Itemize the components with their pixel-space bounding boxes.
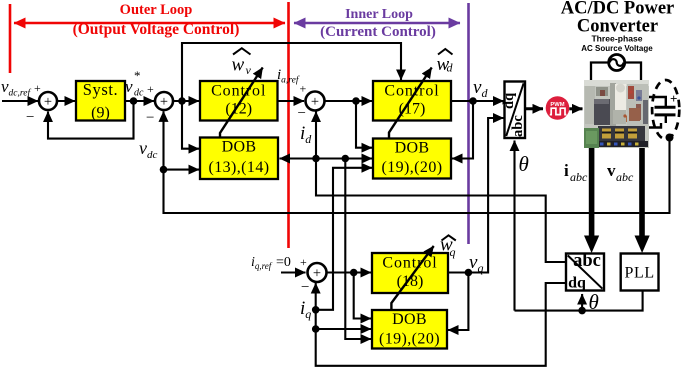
thick measurement line i_abc [589,148,595,237]
wire S1 to Syst [57,100,75,102]
svg-text:abc: abc [616,170,634,184]
wire i_d to lower DOB bottom input [345,159,371,340]
DC bus capacitor dashed ellipse [652,80,679,139]
block DOB (19),(20) upper [373,139,451,179]
svg-text:(19),(20): (19),(20) [382,159,443,176]
wire theta to modulation box [513,141,515,311]
summing junction S1 [39,92,57,110]
outer loop red bracket line left [9,4,12,73]
wire error to Control(17) top [182,43,401,101]
svg-text:Three-phase: Three-phase [591,34,642,44]
svg-text:+: + [34,81,41,95]
capacitor plates [655,106,676,109]
svg-text:(Output Voltage Control): (Output Voltage Control) [73,21,240,38]
wire v_dc into DOB(13)(14) [164,169,200,171]
svg-text:PLL: PLL [624,265,654,282]
svg-text:+: + [311,94,319,110]
wire S2 to Control(12) [173,100,199,102]
block PLL [621,254,659,291]
svg-text:+: + [44,94,52,110]
wire i_d into DOB(13)(14) right [280,157,317,159]
label w_d hat [438,49,453,55]
svg-text:dq: dq [501,93,517,109]
svg-text:θ: θ [519,152,529,176]
adaptation arrow w_d [389,68,432,139]
svg-text:w: w [232,55,245,76]
svg-text:Control: Control [211,83,266,100]
wire error down to DOB(13)(14) [182,101,199,149]
node v_d [469,97,477,105]
wire input v_dc,ref [2,100,38,102]
svg-text:v: v [607,161,616,180]
wire i_q return from dq box [316,283,566,366]
wire PWM to converter [569,107,582,110]
adaptation arrow w_q [391,246,433,310]
svg-text:DOB: DOB [395,139,430,156]
wire S3 to Control(17) [325,100,373,102]
summing junction S2 [155,92,173,110]
summing junction S3 [306,92,325,111]
svg-text:θ: θ [589,290,599,314]
node v_dc [160,166,168,174]
svg-text:Outer Loop: Outer Loop [120,2,193,18]
node i_q lower [312,325,320,333]
block Control (12) [200,81,278,121]
summing junction S4 [308,263,327,282]
svg-text:−: − [26,110,34,126]
svg-text:Inner Loop: Inner Loop [345,7,413,22]
svg-text:(Current Control): (Current Control) [320,24,436,40]
wire v_q feedback to lower DOB right [448,273,468,331]
label w_q hat [442,235,456,240]
node v_q [465,269,473,277]
svg-text:+: + [147,82,154,96]
svg-text:−: − [146,110,154,126]
svg-text:(19),(20): (19),(20) [379,331,440,348]
svg-text:DOB: DOB [222,139,257,156]
wire i_d into DOB(19)(20) middle [316,157,372,159]
wire input i_q,ref [281,271,306,273]
node theta [578,307,586,315]
node i_d branch [342,155,350,163]
svg-text:(13),(14): (13),(14) [209,159,270,176]
outer loop red bracket line mid [287,2,290,248]
node DC bus sense [666,134,674,142]
wire error q to lower DOB top input [354,273,371,319]
wire AC source to converter [591,63,609,81]
svg-text:+: + [670,91,677,106]
svg-text:q: q [450,245,456,259]
svg-text:*: * [134,68,141,83]
node error outer [178,97,186,105]
PWM modulator [546,96,570,120]
adaptation arrow w_v [220,68,263,138]
node i_d [312,155,320,163]
svg-text:Syst.: Syst. [83,80,119,99]
svg-text:Control: Control [382,255,437,272]
node v*_dc [130,97,138,105]
wire v_d feedback to DOB(19)(20) right [452,101,473,159]
svg-text:+: + [300,82,307,96]
thick measurement line v_abc [639,148,645,237]
wire modulation box to PWM [525,107,543,110]
wire Control(12) to S3 (i_a,ref) [278,100,305,102]
converter photograph [584,80,649,148]
svg-text:+: + [160,94,168,110]
svg-text:d: d [447,61,454,75]
svg-text:(17): (17) [399,101,426,118]
block Syst (9) [76,81,125,121]
inner loop purple bracket line [467,3,470,244]
wire Control(17) to dq/abc box (v_d) [451,100,504,102]
svg-text:i: i [564,161,569,180]
wire error d to DOB(19)(20) top input [356,101,372,148]
wire feedback v*_dc to S1 [48,101,134,139]
svg-text:+: + [313,265,321,281]
wire i_q to lower DOB middle input [316,328,371,330]
node i_q upper [312,306,320,314]
svg-text:(9): (9) [91,104,110,121]
label w_v hat [233,48,251,54]
svg-text:(18): (18) [397,273,424,290]
block Control (18) [372,253,448,293]
wire v_dc measurement from DC bus node [164,111,670,213]
wire i_d up to S3 [315,112,317,159]
block Control (17) [373,81,451,121]
svg-text:v: v [125,77,133,96]
svg-text:abc: abc [573,251,601,271]
svg-text:abc: abc [510,115,526,137]
block dq to abc modulation [505,82,526,139]
wire i_d return from dq box [316,159,566,263]
svg-text:dq: dq [568,275,586,292]
wire Syst to S2 [125,100,154,102]
outer loop double arrow [14,22,285,24]
node error inner d [352,97,360,105]
svg-text:abc: abc [570,170,588,184]
wire Control(18) to v_q riser [448,118,504,273]
wire i_q up to DOB(19)(20) bottom input [316,168,372,310]
svg-text:v: v [246,63,252,77]
AC source symbol [609,55,625,71]
block abc to dq measurement [566,254,604,291]
wire theta into abc/dq box [581,294,583,311]
svg-text:PWM: PWM [550,102,564,108]
svg-text:dc: dc [134,88,144,99]
block DOB (13),(14) [200,138,278,180]
svg-text:−: − [298,106,306,122]
node error q [350,269,358,277]
svg-text:+: + [300,255,307,269]
svg-text:AC Source Voltage: AC Source Voltage [581,44,653,53]
svg-text:=0: =0 [276,255,291,270]
block DOB (19),(20) lower [372,310,447,349]
inner loop double arrow [294,22,460,24]
wire theta bus from PLL [515,291,643,311]
wire S4 to Control(18) [327,271,372,273]
svg-text:−: − [301,280,309,296]
svg-text:DOB: DOB [392,311,427,328]
